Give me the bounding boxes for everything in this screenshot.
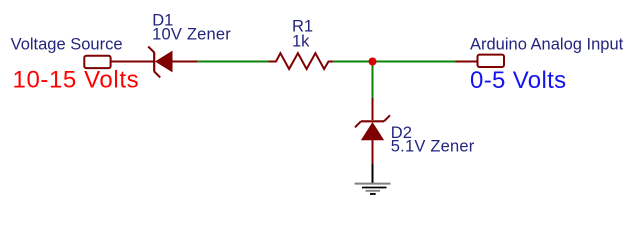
svg-text:5.1V Zener: 5.1V Zener (391, 138, 475, 156)
svg-text:1k: 1k (292, 32, 310, 50)
svg-text:Voltage Source: Voltage Source (11, 36, 123, 54)
svg-text:0-5 Volts: 0-5 Volts (470, 67, 567, 94)
svg-text:10-15 Volts: 10-15 Volts (13, 67, 140, 94)
svg-text:10V Zener: 10V Zener (152, 25, 231, 43)
svg-text:Arduino Analog Input: Arduino Analog Input (470, 36, 624, 54)
